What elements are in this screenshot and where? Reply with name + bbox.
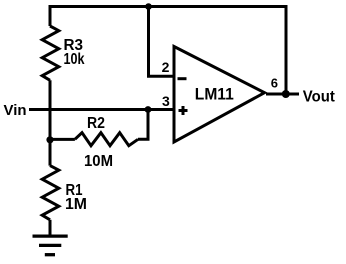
- svg-text:R2: R2: [87, 115, 105, 132]
- svg-text:Vin: Vin: [4, 102, 27, 119]
- svg-text:1M: 1M: [65, 196, 87, 213]
- svg-text:10M: 10M: [84, 153, 113, 170]
- svg-text:10k: 10k: [64, 51, 85, 68]
- svg-text:LM11: LM11: [195, 84, 234, 103]
- svg-text:Vout: Vout: [303, 88, 336, 105]
- svg-text:6: 6: [271, 76, 278, 91]
- svg-text:2: 2: [162, 59, 170, 75]
- svg-text:3: 3: [162, 93, 170, 109]
